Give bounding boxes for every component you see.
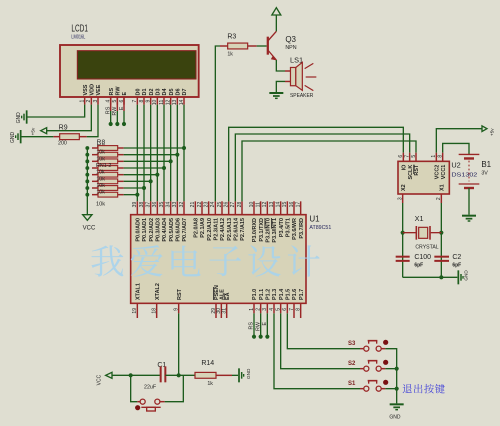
wire U1 P2.7 to U2 RST bbox=[242, 141, 416, 201]
svg-text:RN1-2: RN1-2 bbox=[96, 163, 111, 169]
watermark text bbox=[91, 245, 123, 276]
button S1 indicator dot bbox=[383, 380, 388, 385]
RTC U2 body bbox=[398, 161, 449, 194]
svg-text:VEE: VEE bbox=[96, 84, 102, 95]
svg-text:R9: R9 bbox=[59, 124, 68, 131]
U1 ALE pin 30 bbox=[220, 303, 222, 318]
transistor Q3 bbox=[266, 37, 269, 55]
svg-text:37: 37 bbox=[145, 202, 151, 208]
svg-text:P1.7: P1.7 bbox=[299, 289, 305, 300]
wire R8 rows to data bus with junction dots bbox=[124, 147, 184, 149]
button S2 bbox=[364, 366, 369, 371]
svg-text:D5: D5 bbox=[169, 88, 175, 95]
wire U1 RST to reset node bbox=[178, 313, 180, 375]
svg-text:10k: 10k bbox=[96, 170, 105, 176]
svg-text:NPN: NPN bbox=[285, 45, 296, 51]
svg-text:P1.2: P1.2 bbox=[265, 289, 271, 300]
svg-text:DS1302: DS1302 bbox=[451, 173, 477, 179]
svg-text:D4: D4 bbox=[162, 88, 168, 95]
svg-text:7: 7 bbox=[404, 155, 410, 158]
wire crystal caps bottom rail bbox=[403, 276, 458, 278]
svg-text:200: 200 bbox=[58, 140, 67, 146]
svg-text:E: E bbox=[122, 91, 128, 95]
svg-text:SCLK: SCLK bbox=[408, 165, 414, 180]
U1 P1 pins stubs bottom bbox=[253, 303, 255, 313]
button S3 bbox=[364, 346, 369, 351]
svg-text:R3: R3 bbox=[227, 34, 236, 41]
svg-text:P3.4/T0: P3.4/T0 bbox=[279, 218, 285, 237]
wire LCD pin4 RS with terminal dot bbox=[110, 97, 112, 111]
crystal X1 bbox=[401, 231, 405, 235]
svg-text:P0.6/AD6: P0.6/AD6 bbox=[175, 218, 181, 242]
svg-text:Q3: Q3 bbox=[285, 35, 296, 44]
svg-text:P0.7/AD7: P0.7/AD7 bbox=[182, 218, 188, 242]
svg-text:31: 31 bbox=[221, 308, 227, 314]
svg-text:11: 11 bbox=[159, 99, 165, 104]
ground symbol top-left bbox=[25, 110, 28, 123]
svg-text:P2.6/A14: P2.6/A14 bbox=[233, 218, 239, 241]
svg-text:21: 21 bbox=[190, 202, 196, 208]
svg-text:RST: RST bbox=[177, 288, 183, 300]
U1 XTAL2 pin 18 bbox=[156, 303, 158, 318]
svg-text:C2: C2 bbox=[452, 254, 461, 261]
U1 P3 pins stubs top bbox=[253, 201, 255, 214]
svg-text:1k: 1k bbox=[207, 381, 213, 387]
ground symbol left 2 bbox=[19, 130, 22, 143]
svg-text:P2.5/A13: P2.5/A13 bbox=[227, 218, 233, 241]
power terminal +5V right arrow bbox=[482, 126, 487, 132]
svg-text:3: 3 bbox=[93, 99, 99, 102]
svg-text:10k: 10k bbox=[96, 176, 105, 182]
battery B1 bbox=[459, 153, 480, 155]
wire C1 to R14 with RST junction bbox=[165, 374, 195, 376]
svg-text:1: 1 bbox=[79, 99, 85, 102]
svg-text:12: 12 bbox=[262, 202, 268, 208]
wire Q3 collector to power arrow bbox=[275, 15, 277, 31]
svg-text:+5v: +5v bbox=[489, 128, 494, 136]
U1 EA pin 31 bbox=[226, 303, 228, 318]
svg-text:P1.5: P1.5 bbox=[285, 289, 291, 300]
resistor R3 bbox=[220, 45, 228, 47]
LCD pins 1-14 stubs bbox=[84, 97, 86, 105]
svg-text:P0.1/AD1: P0.1/AD1 bbox=[142, 218, 148, 242]
wire U2 VCC1 to battery bbox=[443, 143, 469, 154]
wire P1.3 to button S1 bbox=[274, 313, 360, 388]
resistor R9 bbox=[79, 136, 86, 138]
svg-text:P3.1/TXD: P3.1/TXD bbox=[259, 218, 265, 242]
svg-text:6pF: 6pF bbox=[452, 262, 461, 268]
svg-text:17: 17 bbox=[295, 202, 301, 208]
svg-text:28: 28 bbox=[237, 202, 243, 208]
wire VCC to C1 bbox=[112, 374, 160, 376]
wire R8 left common rail bbox=[86, 148, 88, 195]
U2 top pins stubs bbox=[402, 153, 404, 162]
svg-text:GND: GND bbox=[10, 132, 16, 144]
wire P1.4 to button S2 bbox=[281, 313, 360, 368]
wire reset button to RST node bbox=[165, 375, 184, 401]
capacitor C1 bbox=[159, 366, 162, 382]
svg-text:U2: U2 bbox=[451, 161, 460, 170]
svg-text:5: 5 bbox=[275, 308, 281, 311]
svg-text:XTAL2: XTAL2 bbox=[155, 283, 161, 300]
svg-text:X1: X1 bbox=[415, 214, 424, 223]
U1 P2 pins stubs top bbox=[194, 201, 196, 214]
svg-text:24: 24 bbox=[210, 202, 216, 208]
resistor R14 bbox=[195, 372, 216, 378]
wire LCD pin2 VDD to +5V terminal bbox=[47, 105, 92, 131]
svg-text:6: 6 bbox=[282, 308, 288, 311]
svg-text:39: 39 bbox=[132, 202, 138, 208]
ground symbol below speaker bbox=[269, 92, 283, 95]
svg-text:GND: GND bbox=[463, 270, 468, 281]
svg-text:U1: U1 bbox=[309, 214, 320, 223]
U1 RST pin 9 bbox=[178, 303, 180, 313]
svg-text:VCC1: VCC1 bbox=[441, 165, 447, 180]
svg-text:10: 10 bbox=[249, 202, 255, 208]
svg-text:AT89C51: AT89C51 bbox=[309, 225, 331, 231]
svg-text:3: 3 bbox=[397, 197, 403, 200]
svg-text:P2.4/A12: P2.4/A12 bbox=[220, 218, 226, 241]
U2 bottom pins stubs bbox=[402, 194, 404, 203]
label exit button text bbox=[403, 384, 412, 393]
svg-text:10: 10 bbox=[152, 99, 158, 105]
svg-text:VDD: VDD bbox=[89, 84, 95, 96]
wire U2 X1 to crystal column right bbox=[440, 203, 442, 277]
svg-text:7: 7 bbox=[132, 99, 138, 102]
svg-text:IO: IO bbox=[401, 164, 407, 171]
svg-text:LCD1: LCD1 bbox=[71, 23, 88, 34]
svg-text:CRYSTAL: CRYSTAL bbox=[415, 244, 439, 250]
power terminal +5V left arrow bbox=[41, 128, 47, 134]
wire data bus D0-D7 LCD pins 7-14 to U1 P0 bbox=[136, 105, 138, 202]
wire LCD pin1 VSS to ground bbox=[27, 105, 85, 117]
svg-text:S2: S2 bbox=[348, 361, 356, 367]
svg-text:VCC2: VCC2 bbox=[434, 165, 440, 180]
svg-text:3V: 3V bbox=[481, 170, 488, 176]
U1 PSEN pin 29 bbox=[215, 303, 217, 318]
svg-text:RS: RS bbox=[109, 88, 115, 96]
svg-text:GND: GND bbox=[246, 368, 251, 379]
svg-text:P2.0/A8: P2.0/A8 bbox=[193, 218, 199, 238]
wire LCD pin5 RW with terminal dot bbox=[116, 97, 118, 111]
svg-text:X1: X1 bbox=[439, 184, 445, 191]
svg-text:12: 12 bbox=[165, 99, 171, 105]
svg-text:2: 2 bbox=[86, 99, 92, 102]
svg-text:14: 14 bbox=[179, 99, 185, 105]
LCD screen area bbox=[77, 51, 196, 79]
svg-text:2: 2 bbox=[255, 308, 261, 311]
svg-text:33: 33 bbox=[172, 202, 178, 208]
svg-text:EA: EA bbox=[225, 292, 231, 300]
svg-text:P0.2/AD2: P0.2/AD2 bbox=[149, 218, 155, 242]
svg-text:GND: GND bbox=[16, 112, 22, 124]
wire R3 to Q3 base bbox=[257, 45, 267, 47]
svg-text:P3.7/RD: P3.7/RD bbox=[299, 218, 305, 239]
svg-text:GND: GND bbox=[389, 415, 401, 421]
svg-text:SPEAKER: SPEAKER bbox=[290, 93, 313, 99]
svg-text:C100: C100 bbox=[414, 254, 431, 261]
wire S3 to ground rail bbox=[385, 349, 396, 404]
svg-text:32: 32 bbox=[179, 202, 185, 208]
svg-text:6pF: 6pF bbox=[414, 262, 423, 268]
svg-text:11: 11 bbox=[255, 202, 261, 207]
wire R14 to ground bbox=[232, 374, 238, 376]
svg-text:19: 19 bbox=[132, 308, 138, 314]
svg-text:RW: RW bbox=[115, 86, 121, 96]
wire VCC junction to reset button bbox=[131, 375, 138, 401]
svg-text:VSS: VSS bbox=[83, 84, 89, 95]
wire speaker bottom pin to ground bbox=[276, 81, 285, 92]
svg-text:P1.4: P1.4 bbox=[279, 289, 285, 300]
svg-text:7: 7 bbox=[289, 308, 295, 311]
ground symbol right of R14 bbox=[238, 368, 241, 382]
svg-text:P2.7/A15: P2.7/A15 bbox=[240, 218, 246, 241]
capacitor C2 bbox=[434, 255, 449, 258]
svg-text:D7: D7 bbox=[182, 88, 188, 95]
R8 resistors 10k x8 bbox=[92, 147, 98, 149]
wire S1 to rail junction bbox=[385, 388, 396, 390]
svg-text:16: 16 bbox=[289, 202, 295, 208]
power terminal VCC left arrow reset bbox=[106, 372, 112, 378]
svg-text:9: 9 bbox=[173, 308, 179, 311]
svg-text:LM016L: LM016L bbox=[71, 34, 85, 40]
capacitor C100 bbox=[396, 255, 410, 258]
wire battery to ground bbox=[468, 188, 470, 215]
speaker LS1 bbox=[285, 70, 290, 72]
svg-text:6: 6 bbox=[398, 155, 404, 158]
svg-text:P2.3/A11: P2.3/A11 bbox=[213, 218, 219, 240]
microcontroller U1 body bbox=[131, 215, 306, 304]
svg-text:8: 8 bbox=[139, 99, 145, 102]
svg-text:3: 3 bbox=[262, 308, 268, 311]
reset button indicator dot bbox=[135, 405, 140, 410]
ground symbol below battery bbox=[462, 214, 476, 217]
svg-text:1: 1 bbox=[249, 308, 255, 311]
svg-text:R14: R14 bbox=[201, 360, 214, 367]
svg-text:D1: D1 bbox=[142, 88, 148, 95]
svg-text:XTAL1: XTAL1 bbox=[135, 283, 141, 300]
svg-text:P1.3: P1.3 bbox=[272, 289, 278, 300]
wire P1.2 net E with terminal dot bbox=[266, 313, 268, 336]
svg-text:P0.3/AD3: P0.3/AD3 bbox=[155, 218, 161, 242]
svg-text:P0.4/AD4: P0.4/AD4 bbox=[162, 218, 168, 242]
LCD display U-LCD1 body bbox=[60, 45, 199, 97]
svg-text:D2: D2 bbox=[149, 88, 155, 95]
wire R9 to ground bbox=[21, 136, 54, 138]
svg-text:P3.5/T1: P3.5/T1 bbox=[285, 218, 291, 237]
wire U2 X2 to crystal column left bbox=[402, 203, 404, 277]
svg-text:35: 35 bbox=[159, 202, 165, 208]
wire P1.5 to button S3 bbox=[287, 313, 360, 348]
svg-text:S1: S1 bbox=[348, 381, 356, 387]
button S2 indicator dot bbox=[383, 360, 388, 365]
svg-text:+5v: +5v bbox=[31, 127, 36, 135]
svg-text:P1.0: P1.0 bbox=[252, 289, 258, 300]
svg-text:25: 25 bbox=[217, 202, 223, 208]
reset button bbox=[140, 399, 145, 404]
svg-text:22: 22 bbox=[197, 202, 203, 208]
svg-text:8: 8 bbox=[295, 308, 301, 311]
svg-text:RST: RST bbox=[414, 164, 420, 176]
svg-text:8: 8 bbox=[437, 155, 443, 158]
U1 P0 pins stubs top bbox=[136, 201, 138, 214]
wire U2 VCC2 to +5V arrow bbox=[436, 129, 482, 153]
svg-text:P2.1/A9: P2.1/A9 bbox=[200, 218, 206, 238]
svg-text:X2: X2 bbox=[401, 184, 407, 191]
svg-text:2: 2 bbox=[436, 197, 442, 200]
svg-text:13: 13 bbox=[269, 202, 275, 208]
wire P1.1 net RW with terminal dot bbox=[260, 313, 262, 336]
U1 XTAL1 pin 19 bbox=[136, 303, 138, 318]
ground symbol right of caps bbox=[456, 276, 458, 278]
svg-text:10k: 10k bbox=[96, 183, 105, 189]
svg-text:P1.1: P1.1 bbox=[259, 289, 265, 300]
button S1 bbox=[364, 386, 369, 391]
svg-text:1k: 1k bbox=[227, 51, 233, 57]
svg-text:13: 13 bbox=[172, 99, 178, 105]
wire U1 P2.6 to U2 SCLK bbox=[235, 134, 409, 201]
svg-text:5: 5 bbox=[411, 155, 417, 158]
wire U1 P2.5 to U2 IO bbox=[229, 127, 404, 201]
wire LCD pin6 E with terminal dot bbox=[123, 97, 125, 111]
wire LCD pin3 VEE to R9 bbox=[87, 105, 98, 137]
svg-text:B1: B1 bbox=[481, 160, 491, 169]
power terminal +5V up arrow above Q3 bbox=[272, 8, 281, 15]
svg-text:D0: D0 bbox=[135, 88, 141, 95]
wire P1.0 net RS with terminal dot bbox=[253, 313, 255, 336]
svg-text:D6: D6 bbox=[175, 88, 181, 95]
svg-text:S3: S3 bbox=[348, 341, 356, 347]
wire U1 P2.3 to R3 bbox=[215, 46, 220, 201]
svg-text:38: 38 bbox=[139, 202, 145, 208]
svg-text:P3.3/INT1: P3.3/INT1 bbox=[272, 218, 278, 243]
svg-text:9: 9 bbox=[145, 99, 151, 102]
svg-text:10k: 10k bbox=[96, 201, 105, 207]
svg-text:P0.5/AD5: P0.5/AD5 bbox=[169, 218, 175, 242]
svg-text:23: 23 bbox=[203, 202, 209, 208]
svg-text:D3: D3 bbox=[155, 88, 161, 95]
wire Q3 emitter to speaker bbox=[276, 60, 285, 71]
button S3 indicator dot bbox=[383, 340, 388, 345]
svg-text:10k: 10k bbox=[96, 156, 105, 162]
svg-text:36: 36 bbox=[152, 202, 158, 208]
svg-text:P1.6: P1.6 bbox=[292, 289, 298, 300]
svg-text:P3.2/INT0: P3.2/INT0 bbox=[265, 218, 271, 243]
svg-text:VCC: VCC bbox=[97, 374, 103, 385]
svg-text:26: 26 bbox=[223, 202, 229, 208]
svg-text:27: 27 bbox=[230, 202, 236, 208]
svg-text:34: 34 bbox=[165, 202, 171, 208]
ground symbol below buttons bbox=[390, 403, 404, 406]
svg-text:1: 1 bbox=[431, 155, 437, 158]
svg-text:15: 15 bbox=[282, 202, 288, 208]
svg-text:P0.0/AD0: P0.0/AD0 bbox=[135, 218, 141, 242]
svg-text:P2.2/A10: P2.2/A10 bbox=[207, 218, 213, 241]
svg-text:P3.0/RXD: P3.0/RXD bbox=[252, 218, 258, 242]
svg-text:4: 4 bbox=[269, 308, 275, 311]
svg-text:VCC: VCC bbox=[83, 225, 96, 231]
wire S2 to rail junction bbox=[385, 368, 396, 370]
svg-text:10k: 10k bbox=[96, 190, 105, 196]
LS1 sound wave marks bbox=[305, 63, 314, 68]
power terminal VCC down arrow bbox=[86, 195, 88, 215]
svg-text:18: 18 bbox=[151, 308, 157, 314]
svg-text:P3.6/WR: P3.6/WR bbox=[292, 218, 298, 240]
svg-text:10k: 10k bbox=[96, 150, 105, 156]
svg-text:22uF: 22uF bbox=[144, 384, 157, 390]
svg-text:14: 14 bbox=[275, 202, 281, 208]
